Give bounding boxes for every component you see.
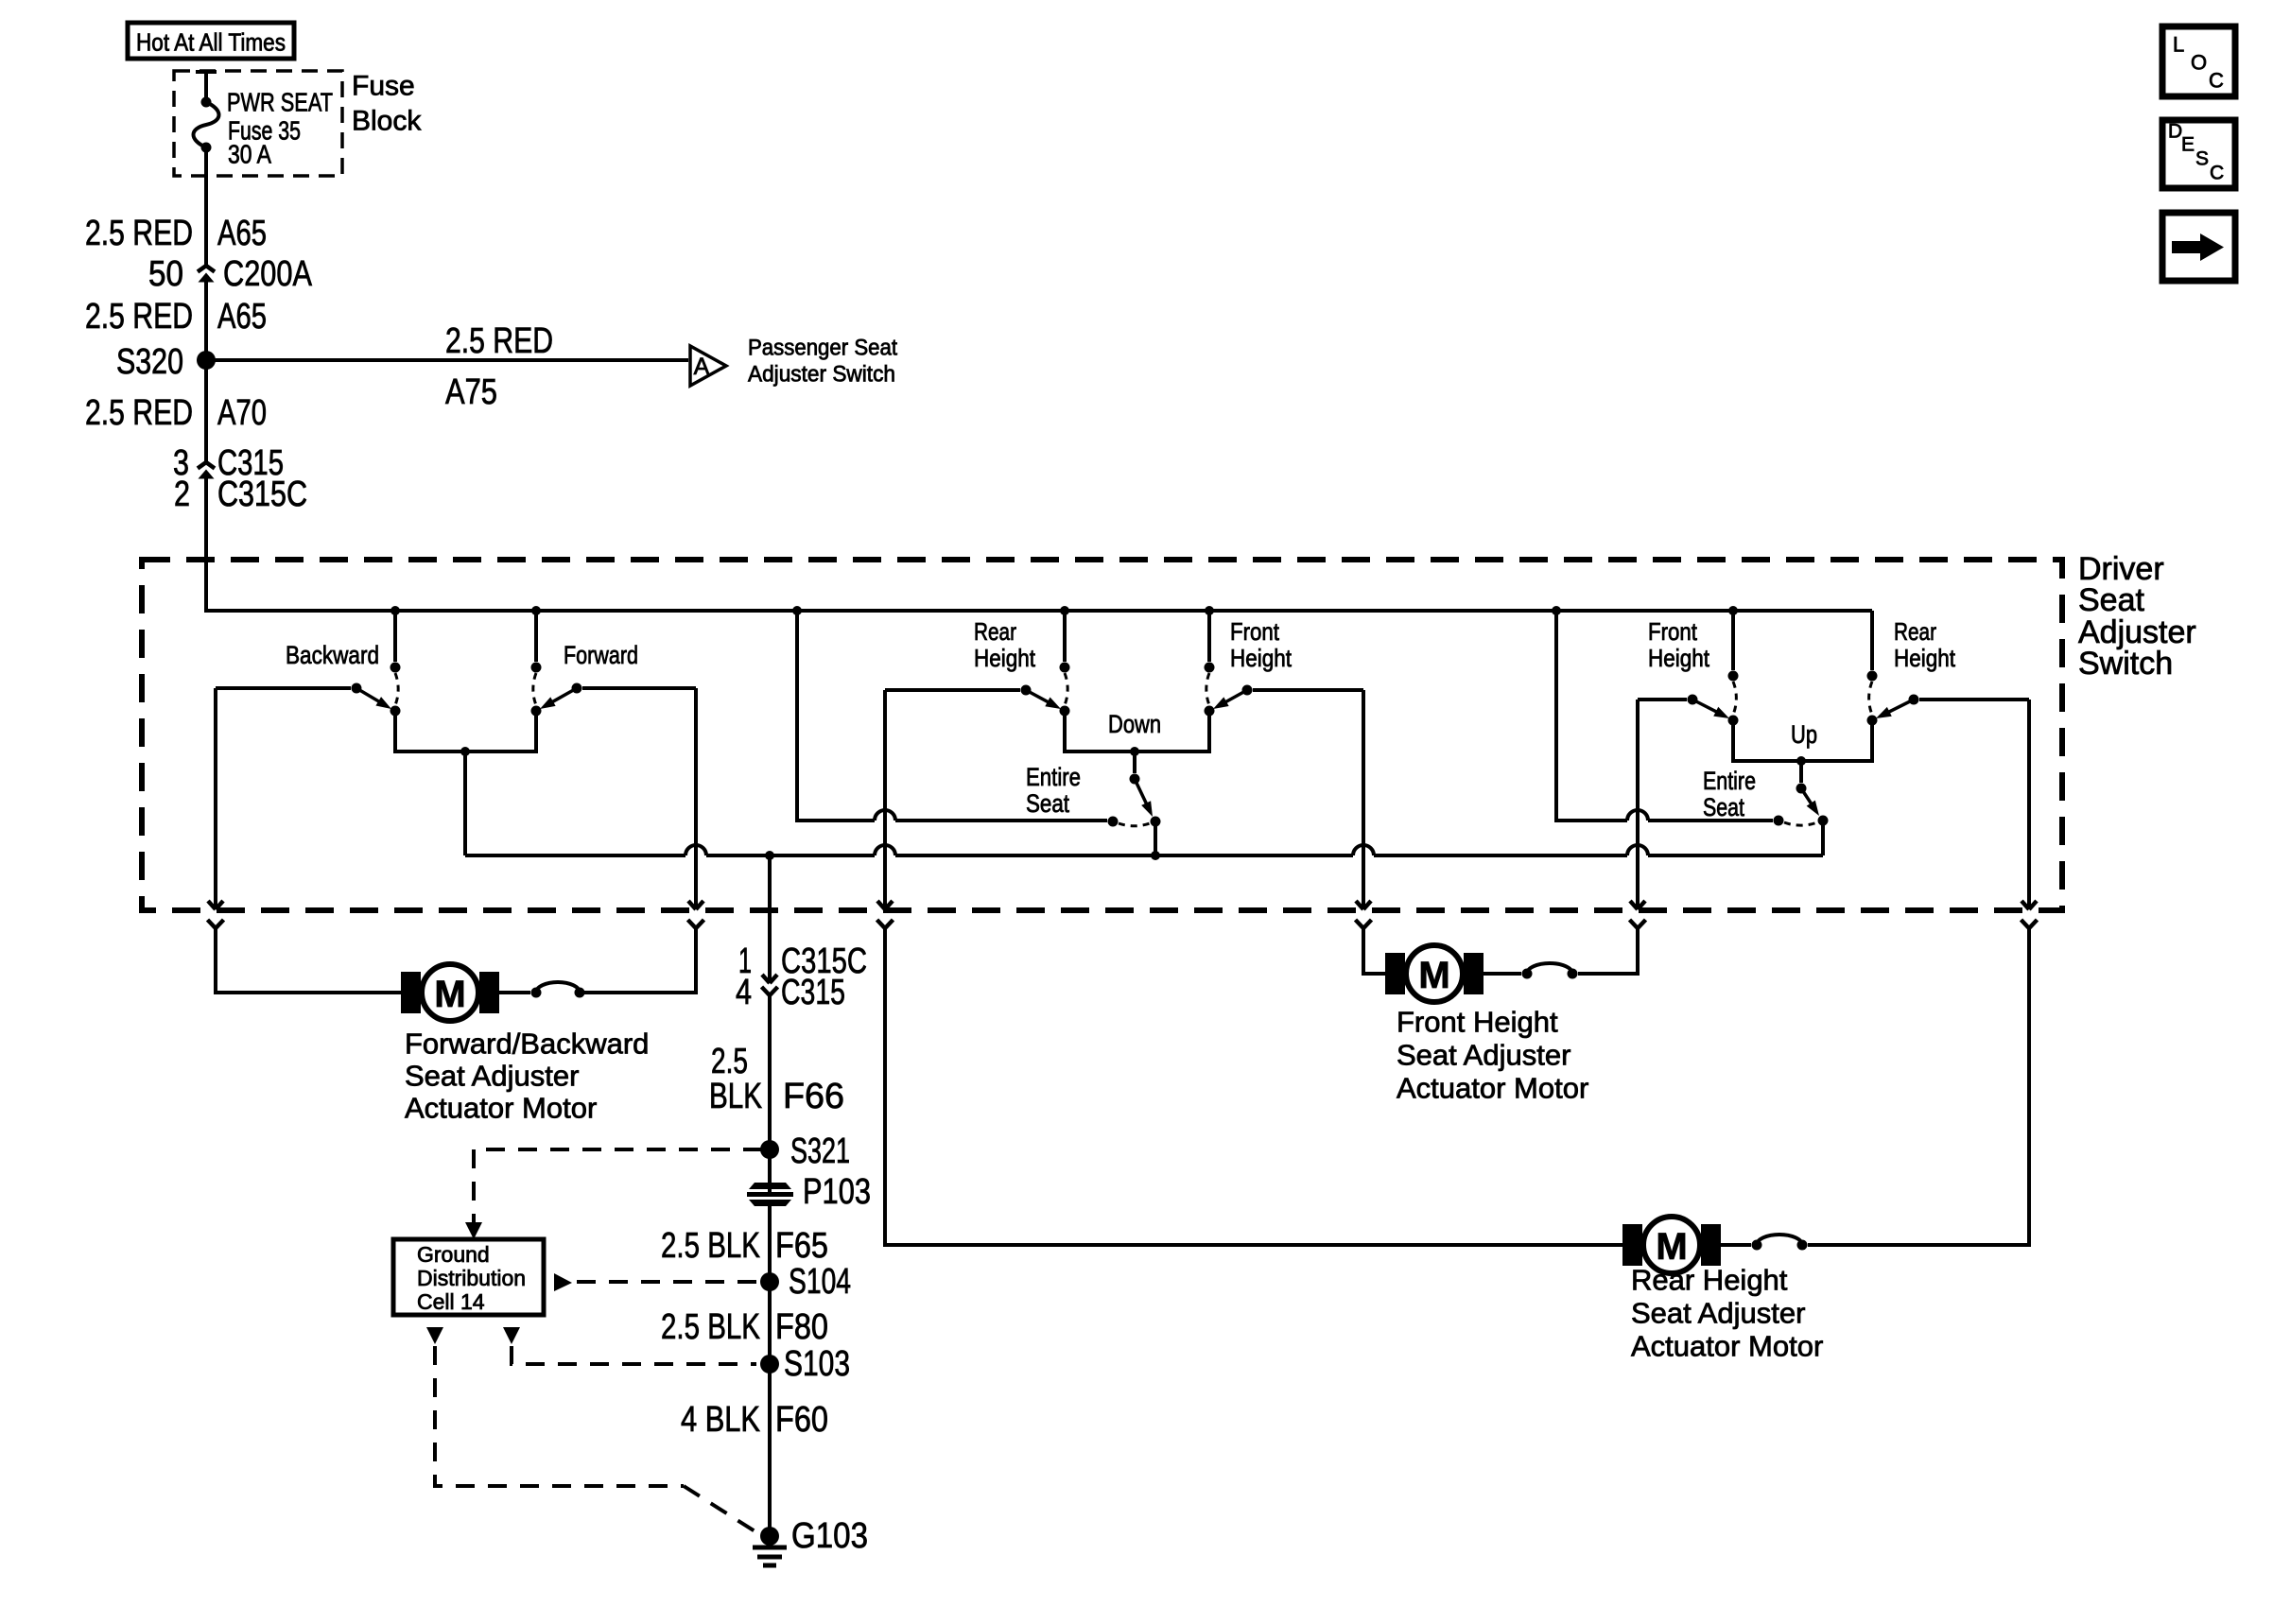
dashed reference S321 to ground distribution <box>465 1149 762 1239</box>
legend box LOC <box>2162 26 2235 96</box>
svg-text:Actuator Motor: Actuator Motor <box>1631 1330 1823 1363</box>
svg-text:2.5 RED: 2.5 RED <box>85 214 193 253</box>
splice S320 <box>116 342 216 382</box>
svg-text:Block: Block <box>352 106 422 137</box>
down contact U wire <box>1065 711 1209 752</box>
splice S104 <box>760 1262 851 1302</box>
wire label 2.5 BLK F65 <box>661 1226 828 1266</box>
rear height up feed wire <box>1909 695 2030 705</box>
breaker rear height motor <box>1752 1235 1808 1251</box>
up entire-seat contact <box>1818 816 1829 856</box>
label Rear Height (down) <box>974 617 1036 672</box>
rear height down travel arc dashed <box>1065 673 1067 705</box>
svg-text:M: M <box>1656 1226 1687 1268</box>
wire front-height-up feed from motor <box>1578 700 1638 974</box>
svg-text:Ground: Ground <box>417 1242 490 1267</box>
bus junction node x=1279 <box>1205 606 1214 615</box>
svg-text:BLK: BLK <box>709 1077 762 1116</box>
switch common return wire with hops <box>465 845 1823 855</box>
ground wire S103 to G103 <box>768 1364 772 1536</box>
connector at switch border (rear height motor left) <box>877 901 894 928</box>
bus junction node x=567 <box>531 606 541 615</box>
front height up blade arrow <box>1692 700 1729 718</box>
svg-text:D: D <box>2168 121 2182 143</box>
svg-text:Actuator Motor: Actuator Motor <box>1397 1072 1588 1105</box>
wire front-height-down feed to motor <box>1363 690 1389 974</box>
bus junction node x=1646 <box>1552 606 1561 615</box>
svg-text:2.5 RED: 2.5 RED <box>85 297 193 337</box>
forward switch contact <box>531 706 542 717</box>
front height up pivot stub <box>1728 611 1739 682</box>
svg-text:2.5 RED: 2.5 RED <box>85 393 193 433</box>
svg-text:C200A: C200A <box>223 254 313 294</box>
inline connector P103 <box>747 1172 871 1212</box>
backward switch contact <box>390 706 401 717</box>
splice S321 <box>760 1132 850 1171</box>
connector C315C pin1 / C315 pin4 on ground wire <box>736 942 867 1012</box>
svg-text:S104: S104 <box>789 1262 851 1302</box>
svg-text:Up: Up <box>1791 720 1817 749</box>
down entire-seat feed wire with hop <box>797 611 1119 827</box>
wire backward feed to motor <box>216 688 401 993</box>
label Passenger Seat Adjuster Switch <box>748 336 897 388</box>
svg-text:O: O <box>2191 51 2207 75</box>
power source label box: Hot At All Times <box>128 23 294 59</box>
down U mid node <box>1130 747 1139 756</box>
svg-text:S321: S321 <box>790 1132 850 1171</box>
label Forward <box>564 641 638 669</box>
rear height up travel arc dashed <box>1869 682 1872 715</box>
label Entire Seat (up) <box>1703 767 1756 821</box>
fuse block dashed box <box>174 71 342 176</box>
backward feed wire <box>216 683 362 694</box>
label Rear Height Seat Adjuster Actuator Motor <box>1631 1264 1823 1363</box>
svg-text:E: E <box>2181 134 2195 156</box>
up entire-seat pivot stub <box>1796 761 1807 794</box>
svg-text:Entire: Entire <box>1703 767 1756 795</box>
wire 2.5 RED A65 label row2 <box>85 297 267 337</box>
svg-text:A: A <box>694 354 710 380</box>
bus junction node x=1126 <box>1060 606 1069 615</box>
svg-text:Hot At All Times: Hot At All Times <box>136 28 286 57</box>
down entire-seat travel arc dashed <box>1119 823 1150 826</box>
svg-text:C: C <box>2209 69 2224 93</box>
backward switch blade arrow <box>356 688 391 709</box>
fuse F35 PWR SEAT 30A symbol <box>194 72 219 233</box>
up U mid node <box>1796 756 1806 766</box>
ground wire C315 to S321 <box>768 995 772 1149</box>
svg-text:Front Height: Front Height <box>1397 1006 1558 1039</box>
connector C200A pin 50 <box>148 254 313 360</box>
up contact U wire <box>1733 720 1872 761</box>
svg-text:C315: C315 <box>781 973 845 1012</box>
legend box DESC <box>2162 120 2235 188</box>
wire label 2.5 BLK F80 <box>661 1307 828 1347</box>
wire A75 to passenger seat adjuster switch <box>206 358 688 362</box>
svg-text:2.5 RED: 2.5 RED <box>445 321 553 361</box>
off-page triangle A <box>690 346 726 386</box>
label Entire Seat (down) <box>1026 763 1081 818</box>
up entire-seat blade arrow <box>1801 788 1819 816</box>
label Front Height (up) <box>1648 617 1710 672</box>
connector at switch border (front height motor right) <box>1630 901 1646 928</box>
svg-text:Down: Down <box>1108 710 1161 738</box>
rear height down blade arrow <box>1026 690 1061 709</box>
front height down feed wire <box>1242 685 1364 696</box>
wire rear-height-down feed to motor <box>885 690 1622 1245</box>
svg-text:A75: A75 <box>445 372 497 412</box>
breaker fwd/back motor <box>531 982 585 998</box>
wire 2.5 RED A65 label row1 <box>85 214 267 253</box>
down entire-seat contact <box>1151 817 1161 856</box>
up entire-seat feed wire with hop <box>1556 611 1784 826</box>
svg-text:Seat Adjuster: Seat Adjuster <box>1397 1039 1570 1072</box>
ground wire S321 to P103 <box>768 1149 772 1183</box>
wire motor to breaker fb <box>499 991 530 994</box>
svg-text:Height: Height <box>1230 644 1293 672</box>
svg-text:4 BLK: 4 BLK <box>681 1400 760 1440</box>
svg-text:Forward/Backward: Forward/Backward <box>405 1028 649 1061</box>
svg-text:4: 4 <box>736 973 752 1012</box>
dashed reference box to S103 <box>503 1327 756 1364</box>
fwd/back common drop wire <box>463 752 467 855</box>
label Driver Seat Adjuster Switch <box>2078 551 2196 682</box>
svg-text:A70: A70 <box>217 393 267 433</box>
wire segment S320 to C315 <box>204 360 208 462</box>
svg-text:2.5: 2.5 <box>711 1042 748 1081</box>
wire forward feed to motor <box>583 688 696 993</box>
svg-text:M: M <box>434 974 465 1015</box>
svg-text:Height: Height <box>974 644 1036 672</box>
connector C315 pin 3 / C315C pin 2 <box>173 443 307 611</box>
svg-text:F66: F66 <box>783 1077 844 1116</box>
svg-text:F60: F60 <box>775 1400 828 1440</box>
motor M rear height <box>1622 1217 1721 1273</box>
front height down travel arc dashed <box>1206 673 1209 705</box>
rear height up blade arrow <box>1876 700 1914 718</box>
svg-text:Passenger Seat: Passenger Seat <box>748 336 897 361</box>
breaker front height motor <box>1522 963 1578 979</box>
up entire-seat travel arc dashed <box>1784 822 1817 825</box>
bus junction node x=1833 <box>1728 606 1738 615</box>
svg-text:50: 50 <box>148 254 183 294</box>
svg-text:Front: Front <box>1648 617 1698 646</box>
wire label 4 BLK F60 <box>681 1400 828 1440</box>
svg-text:F80: F80 <box>775 1307 828 1347</box>
svg-text:Entire: Entire <box>1026 763 1081 791</box>
forward switch travel arc dashed <box>533 673 536 705</box>
dashed reference box to G103 <box>426 1327 756 1532</box>
svg-text:S320: S320 <box>116 342 183 382</box>
connector at switch border (fwd/back motor right) <box>688 901 704 928</box>
svg-text:Rear: Rear <box>1894 617 1936 646</box>
svg-text:30 A: 30 A <box>228 140 271 169</box>
ground wire S104 to S103 <box>768 1282 772 1364</box>
connector at switch border (rear height motor right) <box>2021 901 2038 928</box>
front height up travel arc dashed <box>1733 682 1736 715</box>
svg-text:Actuator Motor: Actuator Motor <box>405 1092 597 1125</box>
svg-text:2.5 BLK: 2.5 BLK <box>661 1226 760 1266</box>
svg-text:Height: Height <box>1894 644 1956 672</box>
svg-text:2: 2 <box>174 475 190 514</box>
fuse block label <box>352 71 422 137</box>
svg-text:A65: A65 <box>217 297 267 337</box>
svg-text:Rear: Rear <box>974 617 1016 646</box>
svg-text:L: L <box>2173 33 2184 57</box>
svg-text:Adjuster Switch: Adjuster Switch <box>748 362 895 388</box>
bus junction node x=843 <box>792 606 802 615</box>
connector at switch border (front height motor left) <box>1356 901 1372 928</box>
wire label 2.5 RED A75 <box>445 321 553 412</box>
svg-text:C: C <box>2210 163 2224 184</box>
svg-text:C315C: C315C <box>217 475 307 514</box>
front height down pivot stub <box>1205 611 1215 673</box>
label Up <box>1791 720 1817 749</box>
fuse label PWR SEAT Fuse 35 30 A <box>227 88 333 169</box>
svg-text:A65: A65 <box>217 214 267 253</box>
rear height down contact <box>1060 706 1070 717</box>
front height up feed wire <box>1638 695 1698 705</box>
motor M front height <box>1385 945 1484 1002</box>
label Backward <box>286 641 379 669</box>
rear height up contact <box>1867 716 1878 726</box>
front height down contact <box>1205 706 1215 717</box>
svg-text:M: M <box>1418 955 1449 996</box>
svg-text:Seat: Seat <box>2078 582 2144 618</box>
ground distribution cell box <box>393 1239 544 1315</box>
ground wire from return line to C315C <box>768 855 772 983</box>
svg-text:Seat Adjuster: Seat Adjuster <box>405 1060 579 1093</box>
motor M forward/backward <box>401 964 499 1021</box>
svg-text:Fuse: Fuse <box>352 71 415 102</box>
splice S103 <box>760 1344 850 1384</box>
bus junction node x=418 <box>390 606 400 615</box>
return wire node to ground wire <box>765 851 774 860</box>
driver seat adjuster switch dashed box <box>142 560 2062 910</box>
forward switch pivot stub <box>531 611 542 673</box>
down entire-seat blade arrow <box>1135 779 1153 817</box>
forward feed wire <box>572 683 697 694</box>
wire 2.5 RED A70 label <box>85 393 267 433</box>
svg-text:F65: F65 <box>775 1226 828 1266</box>
label Forward/Backward Seat Adjuster Actuator Motor <box>405 1028 649 1125</box>
svg-text:Backward: Backward <box>286 641 379 669</box>
svg-text:Seat: Seat <box>1703 793 1744 821</box>
label Front Height (down) <box>1230 617 1293 672</box>
svg-text:P103: P103 <box>803 1172 871 1212</box>
rear height up pivot stub <box>1867 611 1878 682</box>
backward switch pivot stub <box>390 611 401 673</box>
svg-text:S: S <box>2195 148 2209 170</box>
svg-text:Forward: Forward <box>564 641 638 669</box>
wire segment fuse to C200A <box>204 176 208 266</box>
rear height down feed wire <box>885 685 1032 696</box>
wire motor to breaker rh <box>1721 1243 1751 1247</box>
svg-text:G103: G103 <box>791 1516 868 1556</box>
dashed reference box to S104 <box>554 1273 756 1291</box>
ground wire P103 to S104 <box>768 1206 772 1282</box>
backward switch travel arc dashed <box>395 673 398 705</box>
svg-text:Switch: Switch <box>2078 646 2173 682</box>
svg-text:Distribution: Distribution <box>417 1266 526 1290</box>
svg-text:Height: Height <box>1648 644 1710 672</box>
svg-text:2.5 BLK: 2.5 BLK <box>661 1307 760 1347</box>
label Down <box>1108 710 1161 738</box>
wire rear-height-up feed from motor <box>1808 700 2029 1245</box>
connector at switch border (fwd/back motor left) <box>208 901 224 928</box>
label Rear Height (up) <box>1894 617 1956 672</box>
svg-text:Cell 14: Cell 14 <box>417 1289 485 1314</box>
return wire node at entire-seat down <box>1151 851 1160 860</box>
front height up contact <box>1728 716 1739 726</box>
ground G103 <box>753 1516 868 1565</box>
wire motor to breaker fh <box>1484 972 1521 976</box>
rear height down pivot stub <box>1060 611 1070 673</box>
svg-text:Seat Adjuster: Seat Adjuster <box>1631 1297 1805 1330</box>
svg-text:Front: Front <box>1230 617 1280 646</box>
power bus wire inside switch <box>206 486 1872 611</box>
fwd/back contact U wire <box>395 711 536 752</box>
front height down blade arrow <box>1213 690 1247 709</box>
fwd/back U mid node <box>460 747 470 756</box>
legend box arrow <box>2162 213 2235 281</box>
forward switch blade arrow <box>540 688 577 709</box>
label Front Height Seat Adjuster Actuator Motor <box>1397 1006 1588 1105</box>
svg-text:PWR SEAT: PWR SEAT <box>227 88 333 117</box>
svg-text:Rear Height: Rear Height <box>1631 1264 1788 1297</box>
down entire-seat pivot stub <box>1130 752 1140 785</box>
wire label 2.5 BLK F66 <box>709 1042 844 1116</box>
svg-text:Seat: Seat <box>1026 789 1069 818</box>
svg-text:S103: S103 <box>784 1344 850 1384</box>
